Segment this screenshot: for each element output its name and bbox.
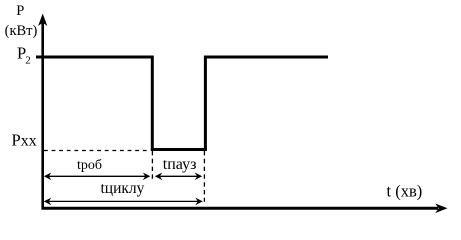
tциклу interval arrow [44,198,203,206]
tпауз interval arrow [155,173,202,181]
waveform low segment [151,148,207,151]
y-axis line [41,17,44,210]
svg-text:Рхх: Рхх [12,130,37,149]
dashed Pхх level line [44,150,150,152]
waveform high segment 2 [204,56,328,59]
x-axis line [42,207,439,210]
tроб interval arrow [44,173,151,181]
dashed falling-edge marker vertical [151,151,153,179]
y-axis arrowhead [38,14,47,27]
svg-text:t (хв): t (хв) [387,181,423,200]
svg-text:tпауз: tпауз [163,156,197,173]
waveform falling edge [151,56,154,151]
x-axis arrowhead [435,204,447,214]
waveform high segment 1 with P2 tick [36,56,154,59]
svg-text:Р2: Р2 [17,44,31,67]
svg-text:Р: Р [16,3,24,19]
svg-text:(кВт): (кВт) [5,23,38,39]
dashed rising-edge marker vertical [203,151,205,202]
svg-text:tциклу: tциклу [101,180,145,197]
svg-text:tроб: tроб [77,158,102,173]
waveform rising edge [204,56,207,151]
